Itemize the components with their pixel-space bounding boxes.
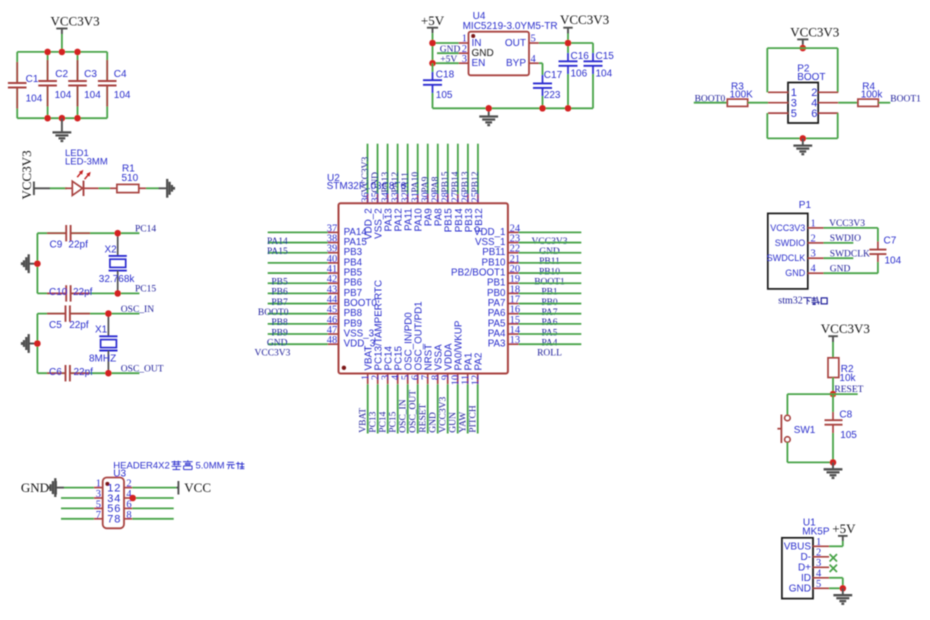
svg-text:7: 7	[107, 514, 113, 526]
U2 pin 37 (PA14) left	[268, 231, 328, 233]
svg-text:3: 3	[816, 558, 821, 569]
svg-text:BOOT1: BOOT1	[890, 95, 921, 105]
svg-text:GND: GND	[267, 338, 288, 348]
wire U3 left	[61, 518, 94, 520]
wire P1 pin2 SWDIO	[824, 242, 854, 244]
U2 pin 21 (PB10) right	[508, 262, 519, 264]
U2 pin 15 (PA5) right	[508, 323, 519, 325]
junction dots U4 left	[429, 40, 436, 47]
svg-text:VCC3V3: VCC3V3	[51, 14, 100, 29]
capacitor C4	[106, 52, 108, 81]
svg-text:1: 1	[96, 479, 101, 490]
svg-text:VCC3V3: VCC3V3	[770, 223, 805, 233]
svg-text:VCC3V3: VCC3V3	[255, 349, 291, 359]
svg-text:1: 1	[816, 537, 821, 548]
wire top rail C1-C4	[17, 51, 107, 53]
wire U3 right	[132, 497, 173, 499]
junction dots U4 right/bottom	[565, 40, 572, 47]
svg-text:OSC_IN: OSC_IN	[399, 399, 409, 432]
capacitor C10 22pf	[65, 285, 67, 301]
svg-text:X1: X1	[95, 325, 108, 336]
wire VCC3V3 to LED1	[50, 187, 67, 189]
junction dot RESET	[830, 391, 837, 398]
wire left vertical X1 section	[36, 314, 38, 374]
wire P1 pin3 SWDCLK	[824, 257, 854, 259]
U2 pin 40 (PB4) left	[268, 262, 328, 264]
svg-text:C1: C1	[26, 74, 39, 85]
svg-text:GND: GND	[21, 480, 49, 495]
svg-text:X2: X2	[105, 245, 118, 256]
svg-text:P1: P1	[799, 200, 812, 211]
svg-text:GND: GND	[429, 412, 439, 433]
wire +5V vertical to EN	[432, 43, 434, 63]
svg-text:1: 1	[811, 218, 816, 229]
U2 pin 12 (PA2) bottom	[477, 374, 479, 385]
svg-text:PC13: PC13	[369, 411, 379, 432]
U2 pin 6 (OSC_OUT/PD1) bottom	[417, 374, 419, 385]
U2 pin 43 (PB7) left	[268, 292, 328, 294]
U2 pin 11 (PA1) bottom	[467, 374, 469, 385]
svg-text:OSC_IN: OSC_IN	[121, 305, 154, 315]
P2 pin 5 (left)	[768, 112, 788, 114]
svg-text:RESET: RESET	[419, 403, 429, 432]
svg-text:VCC3V3: VCC3V3	[790, 25, 839, 40]
svg-text:106: 106	[571, 68, 588, 79]
junction dot U3 row2	[129, 495, 136, 502]
svg-text:5: 5	[791, 108, 797, 120]
svg-text:stm32: stm32	[778, 296, 802, 307]
U2 pin 19 (PB1) right	[508, 282, 519, 284]
U2 pin 41 (PB5) left	[268, 272, 328, 274]
svg-text:PA13: PA13	[381, 172, 391, 193]
wire bottom rail C1-C4	[17, 117, 107, 119]
U2 pin 42 (PB6) left	[268, 282, 328, 284]
U1 pin 5 (GND)	[813, 587, 829, 589]
svg-text:C6: C6	[49, 367, 62, 378]
svg-text:6: 6	[126, 499, 131, 510]
junction dots bottom rail	[44, 115, 51, 122]
svg-text:PITCH: PITCH	[469, 405, 479, 433]
svg-text:13: 13	[510, 335, 520, 346]
U2 pin 30 (PA9) top	[427, 144, 429, 194]
U2 pin 7 (NRST) bottom	[427, 374, 429, 385]
junction dot C8 bottom	[830, 459, 837, 466]
junction dot P2 top	[800, 45, 807, 52]
svg-text:32.768k: 32.768k	[99, 274, 136, 285]
U4 pin 3 EN	[459, 62, 469, 64]
U4 pin 1 IN	[459, 42, 469, 44]
connector U1 body	[782, 538, 813, 599]
wire U3 right	[132, 507, 173, 509]
svg-text:104: 104	[26, 94, 43, 105]
svg-text:PB14: PB14	[451, 171, 461, 192]
wire R4 to P2 pin4	[838, 102, 858, 104]
svg-text:GND: GND	[785, 268, 806, 278]
wire U3 right	[132, 518, 173, 520]
svg-text:PB6: PB6	[271, 288, 288, 298]
wire P2 left vertical top	[766, 48, 768, 92]
wire U1 VBUS to +5V	[829, 545, 843, 547]
capacitor C8 105	[832, 394, 834, 412]
IC U4 body	[469, 32, 530, 76]
port VCC (U3)	[176, 487, 178, 489]
svg-text:PB13: PB13	[461, 171, 471, 192]
connector P2 body	[788, 83, 818, 124]
U4 pin 4 BYP	[529, 62, 539, 64]
ground below P2	[802, 138, 804, 145]
wire P2 top rail	[767, 47, 837, 49]
resistor R2 10k	[828, 358, 839, 378]
net label BOOT1 + wire	[878, 102, 890, 104]
svg-text:105: 105	[436, 90, 453, 101]
svg-text:+5V: +5V	[421, 13, 445, 28]
svg-text:2: 2	[126, 479, 131, 490]
svg-text:104: 104	[55, 90, 72, 101]
wire RESET right	[833, 393, 858, 395]
svg-text:GND: GND	[371, 172, 381, 193]
svg-text:3: 3	[96, 489, 101, 500]
U3 pin 2 (right)	[124, 487, 132, 489]
U2 pin 39 (PB3) left	[268, 252, 328, 254]
wire U3 left	[61, 507, 94, 509]
capacitor C2	[47, 52, 49, 81]
svg-text:BYP: BYP	[506, 58, 526, 69]
capacitor C16 106	[567, 43, 569, 53]
capacitor C17 223	[542, 63, 544, 75]
svg-text:VCC3V3: VCC3V3	[829, 219, 865, 229]
P2 pin 2 (right)	[818, 91, 838, 93]
svg-text:C3: C3	[84, 69, 97, 80]
wire P1 pin4 GND	[824, 272, 878, 274]
svg-text:OSC_OUT: OSC_OUT	[409, 390, 419, 433]
U1 pin 1 (VBUS)	[813, 545, 829, 547]
U2 pin 20 (PB2/BOOT1) right	[508, 272, 519, 274]
wire left vertical X2 section	[36, 233, 38, 293]
svg-text:PA12: PA12	[391, 172, 401, 193]
svg-text:YAW: YAW	[459, 412, 469, 433]
switch SW1	[785, 415, 791, 421]
svg-text:SW1: SW1	[794, 425, 816, 436]
svg-text:104: 104	[885, 255, 902, 266]
svg-text:104: 104	[114, 90, 131, 101]
svg-text:VCC: VCC	[184, 480, 211, 495]
svg-text:2: 2	[816, 547, 821, 558]
U2 pin 1 (VBAT) bottom	[367, 374, 369, 385]
no-connect X on D+	[830, 565, 837, 572]
capacitor C15 104	[592, 43, 594, 53]
wire P2 bottom rail	[767, 137, 837, 139]
svg-text:10k: 10k	[839, 373, 856, 384]
svg-text:VBAT: VBAT	[359, 408, 369, 433]
svg-text:GND: GND	[830, 265, 851, 275]
svg-text:PC14: PC14	[135, 224, 156, 234]
wire +5V to U4 IN	[433, 42, 459, 44]
svg-text:VCC3V3: VCC3V3	[560, 12, 609, 27]
wire P2 right vertical bottom	[837, 113, 839, 138]
P2 pin 4 (right)	[818, 102, 838, 104]
no-connect X on D-	[830, 554, 837, 561]
junction dots X2	[114, 230, 121, 237]
U2 pin 23 (VSS_1) right	[508, 242, 519, 244]
U2 pin 9 (VDDA) bottom	[447, 374, 449, 385]
U2 pin 2 (PC13/TAMPER-RTC) bottom	[377, 374, 379, 385]
svg-text:C5: C5	[49, 320, 62, 331]
wire R3 to P2 pin3	[748, 102, 768, 104]
U2 pin 34 (PA13) top	[387, 144, 389, 194]
svg-text:PA11: PA11	[401, 172, 411, 193]
svg-text:SWDIO: SWDIO	[775, 238, 806, 248]
svg-text:ID: ID	[801, 573, 811, 584]
wire SW1 top vertical	[786, 394, 788, 415]
capacitor C7 104	[877, 228, 879, 242]
wire GND to U3 pin1	[64, 487, 94, 489]
IC U2 body	[339, 203, 508, 373]
P2 pin 1 (left)	[768, 91, 788, 93]
P1 pin 4 (GND)	[808, 272, 824, 274]
svg-text:BOOT0: BOOT0	[258, 308, 289, 318]
svg-text:C7: C7	[884, 235, 897, 246]
svg-text:GND: GND	[440, 45, 461, 55]
svg-text:LED-3MM: LED-3MM	[65, 157, 108, 168]
svg-text:PB5: PB5	[271, 278, 288, 288]
U2 pin 35 (VSS_2) top	[377, 144, 379, 194]
svg-text:VBUS: VBUS	[784, 542, 812, 553]
svg-text:8: 8	[126, 510, 131, 521]
svg-text:PB8: PB8	[271, 318, 288, 328]
svg-text:4: 4	[531, 54, 537, 65]
wire OSC_IN (X1 top)	[37, 313, 65, 315]
svg-text:PC14: PC14	[379, 411, 389, 432]
svg-text:4: 4	[811, 264, 817, 275]
wire BYP to C17	[539, 62, 543, 64]
U3 pin 6 (right)	[124, 507, 132, 509]
U2 pin 46 (PB9) left	[268, 323, 328, 325]
svg-text:OUT: OUT	[505, 38, 526, 49]
U2 pin 32 (PA11) top	[407, 144, 409, 194]
U2 pin 45 (PB8) left	[268, 313, 328, 315]
svg-text:VCC3V3: VCC3V3	[439, 397, 449, 433]
svg-text:ROLL: ROLL	[537, 349, 562, 359]
U3 pin1 marker dot	[105, 482, 109, 486]
U1 pin 4 (ID)	[813, 577, 829, 579]
U3 pin 8 (right)	[124, 518, 132, 520]
svg-text:104: 104	[596, 68, 613, 79]
U2 pin 26 (PB13) top	[467, 144, 469, 194]
svg-text:VCC3V3: VCC3V3	[821, 321, 870, 336]
svg-text:22pf: 22pf	[68, 240, 88, 251]
svg-text:PA14: PA14	[267, 237, 288, 247]
svg-text:PC15: PC15	[135, 285, 156, 295]
svg-text:PA8: PA8	[431, 176, 441, 192]
svg-text:SWDCLK: SWDCLK	[767, 253, 806, 263]
U2 pin 13 (PA3) right	[508, 343, 519, 345]
svg-text:C10: C10	[49, 287, 68, 298]
svg-text:PB15: PB15	[441, 171, 451, 192]
svg-text:7: 7	[96, 510, 101, 521]
U3 pin 4 (right)	[124, 497, 132, 499]
U4 pin 2 GND	[459, 52, 469, 54]
svg-text:12: 12	[471, 375, 482, 386]
svg-text:PA9: PA9	[421, 176, 431, 192]
U2 pin 38 (PA15) left	[268, 242, 328, 244]
wire SW1 bottom vertical	[786, 442, 788, 462]
svg-text:3: 3	[462, 54, 467, 65]
wire OSC_OUT (X1 bottom)	[37, 372, 65, 374]
ground arrow X1 section	[29, 343, 37, 345]
svg-text:PA2: PA2	[474, 353, 485, 371]
svg-text:PB12: PB12	[471, 171, 481, 192]
P1 pin 3 (SWDCLK)	[808, 257, 824, 259]
wire LED1 to R1	[99, 187, 111, 189]
P2 pin 6 (right)	[818, 112, 838, 114]
svg-text:5: 5	[531, 34, 536, 45]
svg-text:VCC3V3: VCC3V3	[19, 150, 34, 199]
P2 pin 3 (left)	[768, 102, 788, 104]
U4 pin 5 OUT	[529, 42, 539, 44]
capacitor C18 105	[432, 63, 434, 72]
svg-text:5.0MM: 5.0MM	[196, 461, 225, 472]
svg-text:D+: D+	[798, 563, 811, 574]
U3 pin 3 (left)	[94, 497, 103, 499]
svg-text:SWDCLK: SWDCLK	[830, 250, 870, 260]
svg-text:PB9: PB9	[271, 328, 288, 338]
svg-text:MIC5219-3.0YM5-TR: MIC5219-3.0YM5-TR	[463, 21, 558, 32]
svg-text:+5V: +5V	[440, 55, 457, 65]
ground below U4	[488, 108, 490, 116]
wire PC15 (X2 bottom)	[37, 292, 66, 294]
svg-text:C18: C18	[436, 70, 455, 81]
svg-text:C15: C15	[596, 51, 615, 62]
capacitor C9 22pf	[65, 225, 67, 241]
wire SW1 bottom horizontal	[787, 461, 833, 463]
svg-text:C4: C4	[114, 69, 127, 80]
U3 pin 1 (left)	[94, 487, 103, 489]
U2 pin 8 (VSSA) bottom	[437, 374, 439, 385]
capacitor C1	[16, 52, 18, 83]
wire OUT to VCC3V3	[539, 42, 593, 44]
U2 pin 16 (PA6) right	[508, 313, 519, 315]
svg-text:VCC3V3: VCC3V3	[361, 156, 371, 192]
U1 pin 3 (D+)	[813, 566, 829, 568]
svg-text:PA15: PA15	[267, 247, 288, 257]
svg-text:SWDIO: SWDIO	[830, 234, 861, 244]
U2 pin 3 (PC14) bottom	[387, 374, 389, 385]
net label GND (U4 pin2)	[437, 52, 459, 54]
U2 pin 44 (BOOT0) left	[268, 303, 328, 305]
U2 pin 18 (PB0) right	[508, 292, 519, 294]
P1 pin 1 (VCC3V3)	[808, 227, 824, 229]
wire R1 to ground	[146, 187, 159, 189]
U2 pin 36 (VDD_2) top	[367, 144, 369, 194]
wire U1 GND	[829, 587, 843, 589]
junction dots X1	[105, 310, 112, 317]
svg-text:GUN: GUN	[449, 412, 459, 433]
ground below C1-C4	[61, 118, 63, 132]
U2 pin1 marker dot	[342, 366, 346, 370]
svg-text:PB12: PB12	[474, 208, 485, 232]
svg-text:22pf: 22pf	[74, 367, 94, 378]
junction dot P2 bottom	[800, 135, 807, 142]
svg-text:5: 5	[816, 579, 821, 590]
svg-text:2: 2	[811, 233, 816, 244]
wire RESET left to SW1	[787, 393, 833, 395]
svg-text:C2: C2	[55, 69, 68, 80]
U2 pin 31 (PA10) top	[417, 144, 419, 194]
wire U4 bottom rail	[433, 107, 594, 109]
ground arrow X2 section	[29, 263, 37, 265]
wire R2 to RESET node	[832, 378, 834, 395]
svg-text:C9: C9	[50, 240, 63, 251]
U2 pin 28 (PB15) top	[447, 144, 449, 194]
capacitor C3	[77, 52, 79, 81]
svg-text:C17: C17	[544, 70, 563, 81]
svg-text:GND: GND	[789, 584, 811, 595]
svg-text:+5V: +5V	[832, 521, 856, 536]
svg-text:22pf: 22pf	[69, 320, 89, 331]
U3 pin 5 (left)	[94, 507, 103, 509]
U2 pin 25 (PB12) top	[477, 144, 479, 194]
wire PC14 (X2 top)	[37, 232, 66, 234]
svg-text:4: 4	[816, 568, 822, 579]
svg-text:C8: C8	[839, 410, 852, 421]
junction dot U1 GND	[840, 585, 847, 592]
svg-text:3: 3	[811, 249, 816, 260]
U2 pin 5 (OSC_IN/PD0) bottom	[407, 374, 409, 385]
wire U3 pin2 to VCC	[132, 487, 176, 489]
connector U3 body	[103, 478, 124, 529]
P1 pin 2 (SWDIO)	[808, 242, 824, 244]
U2 pin 24 (VDD_1) right	[508, 231, 519, 233]
svg-text:PA3: PA3	[488, 339, 506, 350]
svg-text:PA10: PA10	[411, 172, 421, 193]
svg-text:48: 48	[327, 335, 338, 346]
svg-text:PC15: PC15	[389, 411, 399, 432]
wire P2 left vertical bottom	[766, 113, 768, 138]
svg-text:105: 105	[840, 430, 857, 441]
wire U1 ID down	[829, 577, 843, 579]
svg-text:8: 8	[114, 514, 120, 526]
wire P2 right vertical top	[837, 48, 839, 92]
ground below reset	[832, 462, 834, 468]
svg-text:5: 5	[96, 499, 101, 510]
capacitor C6 22pf	[65, 365, 67, 381]
U2 pin 48 (VDD_3) left	[268, 343, 328, 345]
U2 pin 33 (PA12) top	[397, 144, 399, 194]
svg-text:8MHZ: 8MHZ	[89, 354, 116, 365]
wire P1 pin1 VCC3V3	[824, 227, 878, 229]
svg-text:BOOT: BOOT	[797, 72, 825, 83]
svg-text:PB7: PB7	[271, 298, 288, 308]
U2 pin 27 (PB14) top	[457, 144, 459, 194]
U2 pin 14 (PA4) right	[508, 333, 519, 335]
U2 pin 17 (PA7) right	[508, 303, 519, 305]
svg-text:223: 223	[544, 90, 561, 101]
U2 pin 47 (VSS_3) left	[268, 333, 328, 335]
wire U3 left	[61, 497, 94, 499]
ground arrow right of R1	[159, 187, 167, 189]
svg-text:22pf: 22pf	[73, 287, 93, 298]
svg-text:6: 6	[811, 108, 817, 120]
svg-text:EN: EN	[472, 58, 486, 69]
junction dots top rail	[44, 49, 51, 56]
U1 pin 2 (D-)	[813, 556, 829, 558]
U2 pin 10 (PA0/WKUP) bottom	[457, 374, 459, 385]
U2 pin 29 (PA8) top	[437, 144, 439, 194]
svg-text:25: 25	[471, 192, 482, 203]
U3 pin 7 (left)	[94, 518, 103, 520]
U2 pin 22 (PB11) right	[508, 252, 519, 254]
svg-text:104: 104	[84, 90, 101, 101]
